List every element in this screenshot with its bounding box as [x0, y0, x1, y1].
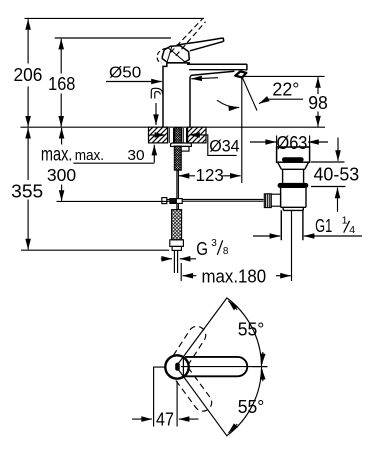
drain side port — [270, 194, 280, 206]
47 arrow left — [132, 418, 152, 420]
rod T-fitting dark — [170, 199, 176, 204]
G1 1/4 fraction slash — [344, 221, 350, 233]
pull rod upper — [177, 170, 179, 198]
max30 leader underline — [73, 162, 154, 164]
max180 left extension — [180, 263, 182, 281]
drain body — [281, 188, 306, 210]
shank collar lines in deck hole — [169, 128, 186, 143]
top view handle capsule — [185, 357, 247, 376]
40-53 bottom extension — [311, 186, 346, 188]
hose nut — [170, 240, 184, 247]
deck extension line — [20, 126, 325, 128]
handle knob — [162, 46, 189, 63]
svg-text:22°: 22° — [272, 80, 299, 100]
arc arrow above tick — [262, 352, 263, 364]
mounting washer plate — [171, 143, 192, 146]
braided hose — [172, 210, 182, 240]
Ø63 arrow right — [308, 141, 328, 143]
top view 47 right extension — [176, 381, 178, 427]
drain centerline — [291, 210, 293, 281]
handle knob facets — [167, 46, 186, 63]
dimension 355 arrow up — [27, 128, 29, 180]
arc arrow lower end — [229, 424, 238, 433]
55 deg upper diagonal — [177, 298, 228, 367]
arc arrow below tick — [262, 369, 263, 381]
svg-text:168: 168 — [48, 74, 75, 94]
40-53 arrow up — [337, 188, 339, 212]
extension line hose end level — [21, 249, 169, 251]
dimension 168 arrow up — [60, 39, 62, 74]
22 deg leader arrow — [259, 99, 267, 103]
svg-text:55°: 55° — [238, 320, 265, 340]
Ø34 arrow left — [150, 134, 166, 136]
svg-text:G1: G1 — [315, 215, 332, 236]
lever arm — [177, 38, 224, 51]
svg-text:4: 4 — [349, 224, 355, 236]
raised lever dashed — [171, 19, 206, 56]
svg-text:max.: max. — [41, 144, 73, 165]
max30 arrow down at deck top — [155, 103, 157, 125]
123 arrow left — [179, 175, 195, 177]
40-53 top extension — [311, 161, 345, 163]
123 arrow right — [223, 175, 241, 177]
deck right piece — [188, 127, 206, 143]
pull rod knob hook — [151, 88, 163, 98]
extension line 168 level — [55, 37, 171, 39]
svg-text:Ø63: Ø63 — [277, 133, 308, 153]
drain flange extension ticks — [277, 136, 310, 148]
G1 1/4 arrow left — [253, 235, 280, 237]
svg-text:30: 30 — [127, 147, 144, 164]
dimension 206 arrow up — [27, 19, 29, 63]
svg-text:123: 123 — [196, 165, 224, 185]
dimension 206 arrow down — [27, 87, 29, 127]
dimension max300 arrow up — [61, 128, 63, 145]
svg-text:206: 206 — [14, 65, 43, 85]
pull rod lower — [177, 203, 179, 209]
Ø34 arrow right with leader — [189, 135, 236, 156]
water stream line — [242, 78, 257, 111]
top view knob mark — [175, 363, 180, 371]
mounting nut — [175, 146, 190, 151]
svg-text:47: 47 — [156, 410, 174, 430]
dimension 355 arrow down — [27, 200, 29, 250]
faucet spout underside and body right edge — [190, 71, 234, 127]
max30 arrow up at deck bottom — [153, 145, 155, 163]
spout underside arrow — [191, 78, 218, 79]
threaded rod upper in hole — [175, 128, 182, 143]
dashed handle rotated up — [173, 323, 209, 365]
top view handle centerline — [181, 366, 267, 368]
svg-text:300: 300 — [47, 165, 76, 185]
svg-text:max.180: max.180 — [202, 266, 267, 286]
G3/8 arrow right — [180, 258, 196, 260]
Ø63 arrow left — [250, 141, 276, 143]
faucet spout top — [187, 64, 247, 70]
drain O-ring — [278, 183, 309, 188]
drain taper — [278, 162, 309, 169]
max180 arrow right — [276, 275, 291, 277]
svg-text:G: G — [196, 238, 208, 259]
G1 1/4 arrow right — [304, 235, 362, 237]
deck left piece — [149, 127, 168, 143]
svg-text:40-53: 40-53 — [314, 164, 360, 184]
47 arrow right — [179, 418, 199, 420]
G 3/8 fraction slash — [217, 240, 222, 255]
98 top extension line — [243, 75, 325, 77]
40-53 arrow down — [337, 138, 339, 161]
55 deg arc — [227, 298, 262, 436]
faucet cartridge ring — [167, 63, 189, 64]
drain flange — [277, 147, 310, 162]
svg-text:Ø34: Ø34 — [209, 138, 239, 156]
98 arrow up — [317, 77, 319, 94]
hose collar — [172, 246, 181, 250]
svg-text:3: 3 — [211, 238, 217, 249]
Ø50 leader arrow — [106, 81, 162, 83]
max180 arrow left — [183, 275, 197, 277]
extension line rod level — [57, 200, 169, 202]
G3/8 arrow left — [161, 258, 172, 260]
55 deg lower diagonal — [177, 367, 228, 436]
98 arrow down — [317, 112, 319, 127]
22 deg leader — [267, 98, 303, 100]
hose tube — [174, 250, 177, 273]
svg-text:1: 1 — [342, 215, 348, 227]
svg-text:8: 8 — [223, 246, 229, 257]
svg-text:98: 98 — [308, 93, 328, 113]
rod T-fitting light — [176, 199, 182, 204]
svg-text:55°: 55° — [238, 397, 265, 417]
raised knob dashed arc — [157, 48, 166, 63]
vertical reference line at spout tip — [241, 78, 243, 183]
threaded rod — [174, 146, 181, 170]
horizontal pop-up rod — [167, 199, 264, 201]
faucet aerator — [235, 71, 246, 77]
svg-text:355: 355 — [11, 181, 43, 202]
22 deg arc arrow — [217, 100, 239, 107]
arc arrow upper end — [228, 301, 237, 310]
rod left cap — [162, 198, 167, 204]
extension line top (206 max height) — [25, 17, 205, 19]
top view 47 extension L — [153, 367, 165, 426]
faucet spout second line — [189, 69, 246, 72]
drain knurled knob — [264, 194, 271, 208]
top view knob circle — [165, 355, 188, 378]
top view knob junction — [182, 357, 184, 376]
drain plug slot — [282, 157, 304, 161]
drain tailpipe — [281, 210, 303, 240]
dimension max300 arrow down — [61, 185, 63, 201]
dashed handle rotated down — [174, 367, 215, 414]
drain neck — [283, 169, 304, 183]
svg-text:Ø50: Ø50 — [109, 65, 141, 82]
arc tick — [252, 366, 267, 368]
dimension 168 arrow down — [60, 94, 62, 127]
svg-text:max.: max. — [75, 147, 104, 164]
faucet body left edge — [163, 63, 167, 127]
